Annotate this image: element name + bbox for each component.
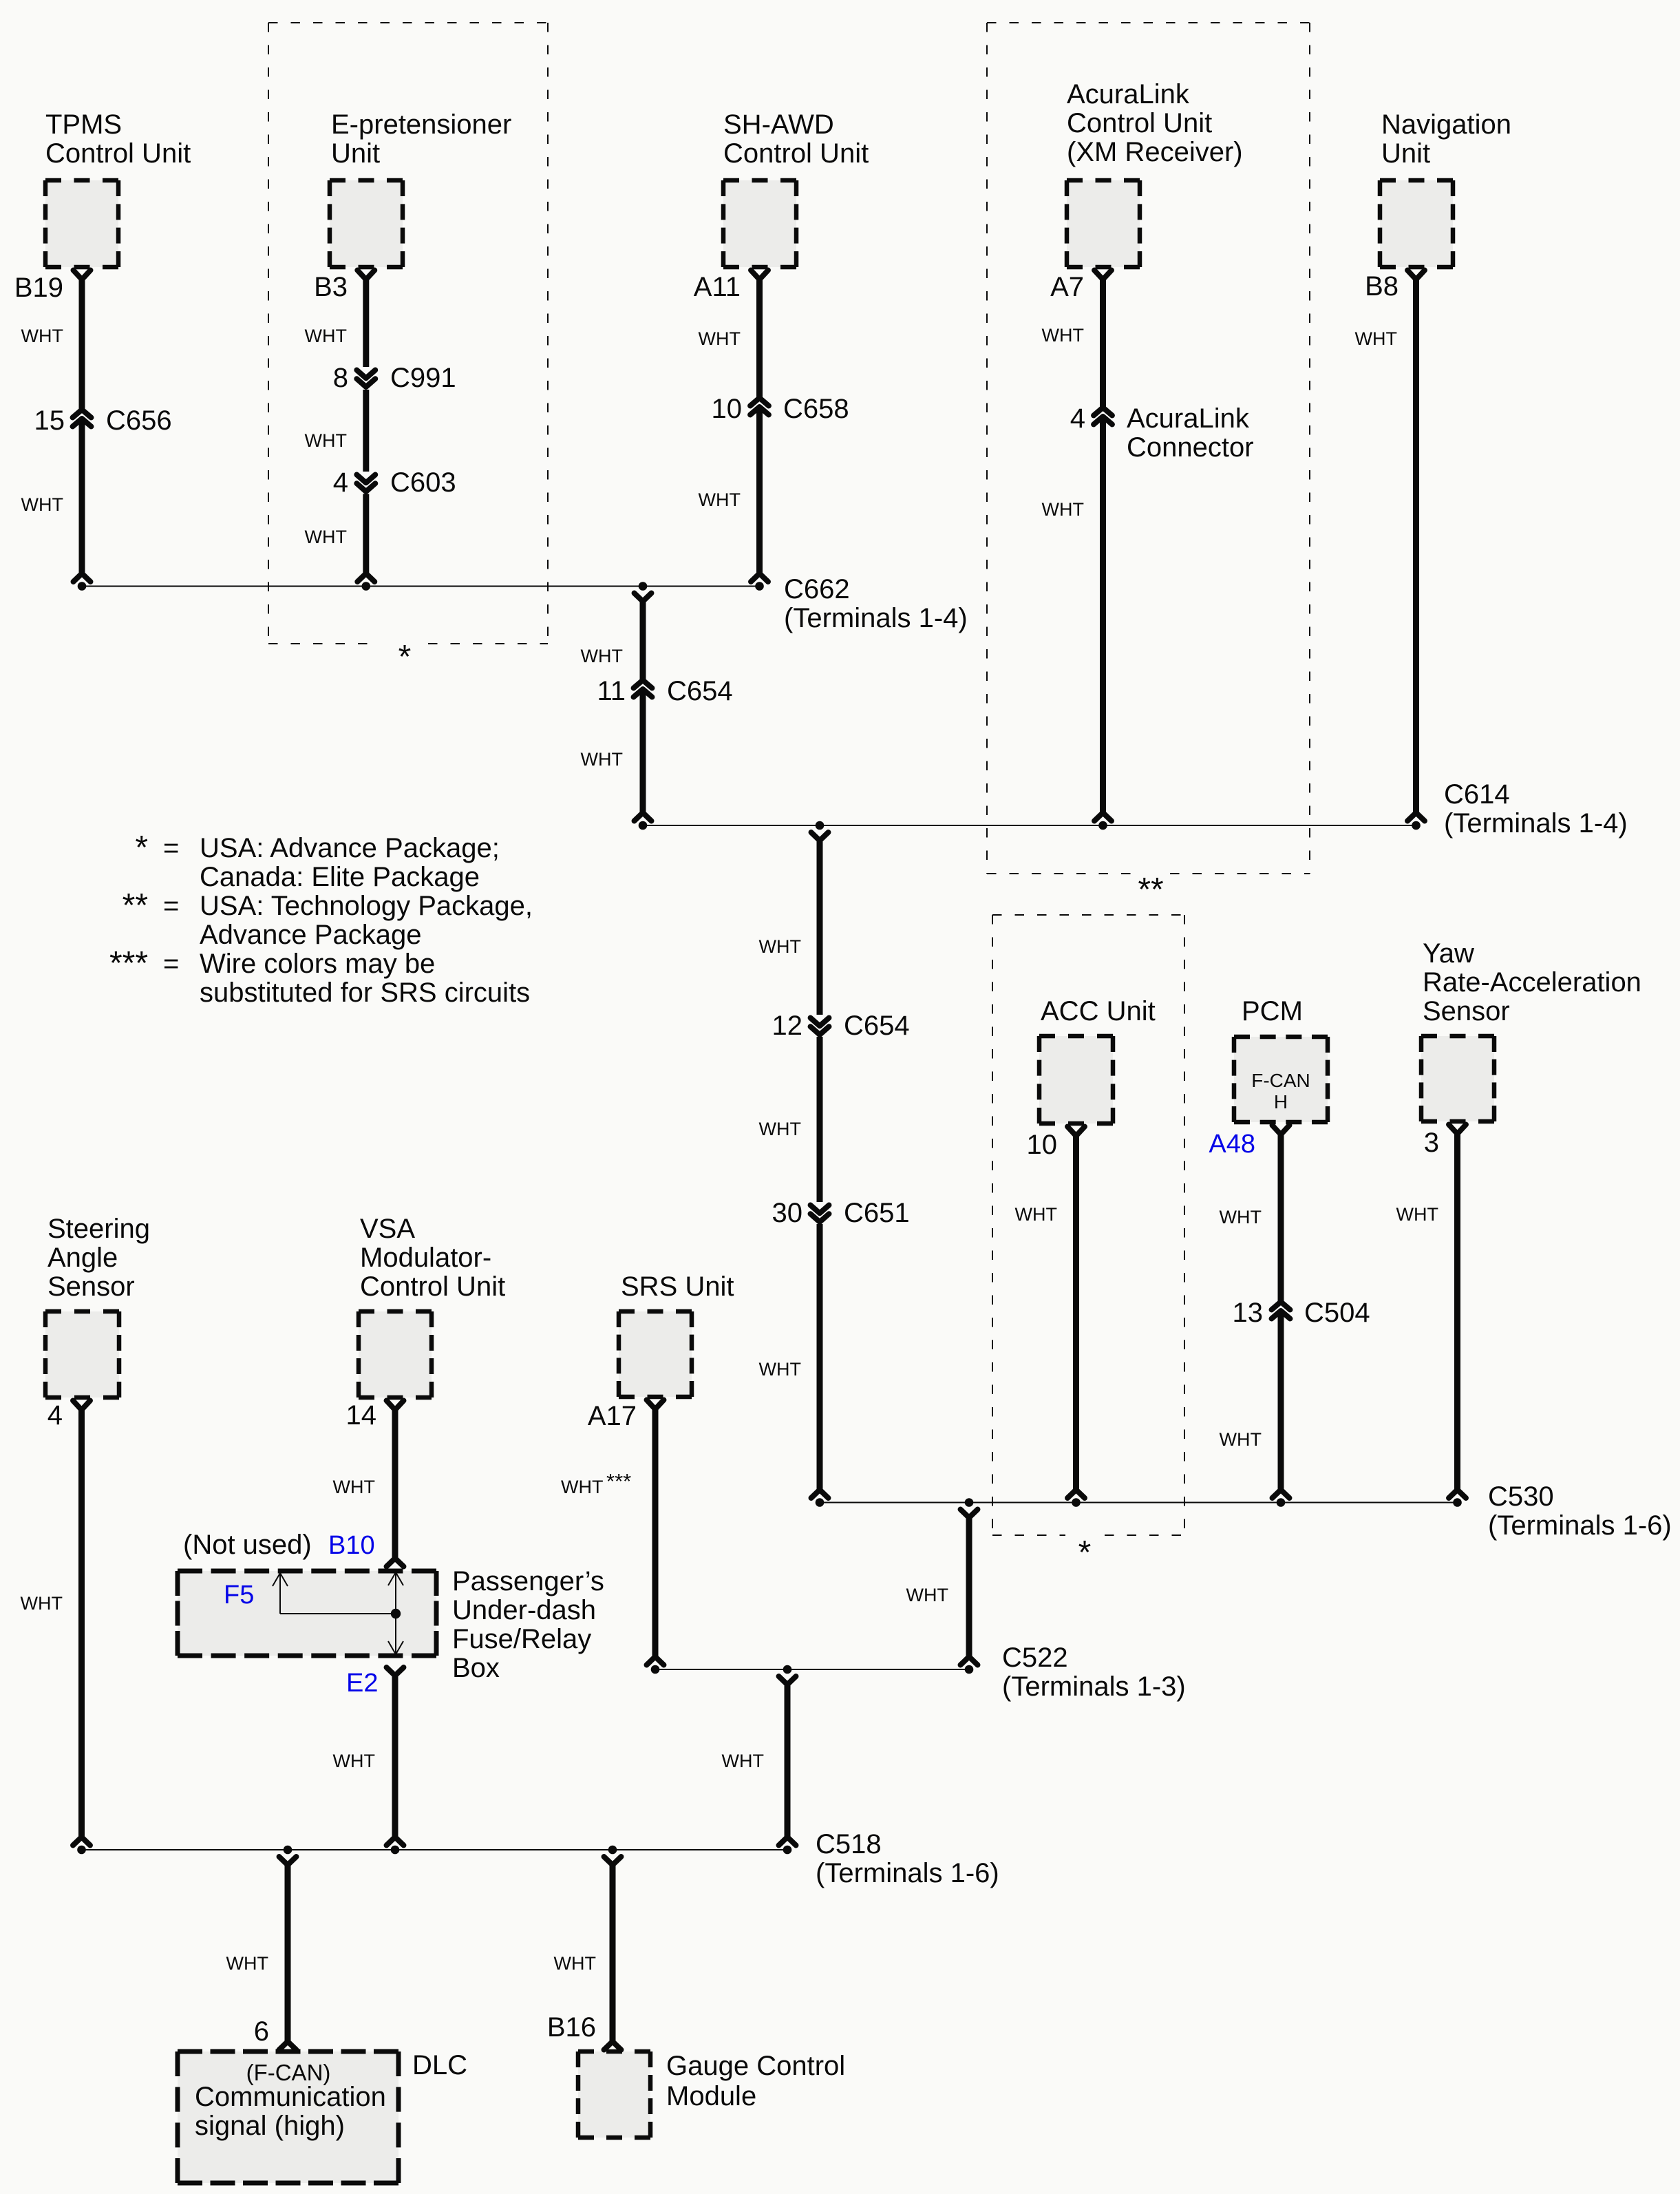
svg-text:USA: Technology Package,: USA: Technology Package, bbox=[200, 891, 533, 921]
svg-text:(F-CAN): (F-CAN) bbox=[246, 2060, 331, 2085]
svg-text:4: 4 bbox=[47, 1400, 63, 1431]
svg-text:Box: Box bbox=[452, 1653, 500, 1683]
svg-text:Control Unit: Control Unit bbox=[723, 138, 869, 169]
svg-text:6: 6 bbox=[254, 2016, 269, 2047]
svg-text:C651: C651 bbox=[844, 1198, 910, 1228]
svg-text:WHT: WHT bbox=[759, 936, 801, 957]
svg-text:Gauge Control: Gauge Control bbox=[666, 2051, 845, 2081]
svg-text:10: 10 bbox=[712, 394, 743, 424]
svg-text:C991: C991 bbox=[390, 363, 456, 393]
svg-text:Steering: Steering bbox=[47, 1214, 150, 1244]
svg-text:(Terminals 1-4): (Terminals 1-4) bbox=[1444, 808, 1628, 838]
svg-text:PCM: PCM bbox=[1242, 996, 1303, 1026]
svg-text:WHT: WHT bbox=[561, 1477, 603, 1497]
svg-text:Under-dash: Under-dash bbox=[452, 1595, 596, 1625]
svg-text:15: 15 bbox=[34, 405, 65, 436]
svg-text:(Terminals 1-3): (Terminals 1-3) bbox=[1002, 1671, 1186, 1702]
svg-text:USA: Advance Package;: USA: Advance Package; bbox=[200, 833, 500, 863]
svg-text:WHT: WHT bbox=[305, 430, 347, 451]
svg-text:C518: C518 bbox=[816, 1829, 882, 1859]
svg-text:WHT: WHT bbox=[759, 1359, 801, 1380]
svg-text:Module: Module bbox=[666, 2081, 756, 2111]
svg-text:WHT: WHT bbox=[1355, 328, 1397, 349]
svg-text:30: 30 bbox=[772, 1198, 803, 1228]
svg-text:(Terminals 1-6): (Terminals 1-6) bbox=[1488, 1510, 1672, 1541]
svg-text:F5: F5 bbox=[224, 1581, 254, 1610]
svg-text:Modulator-: Modulator- bbox=[360, 1243, 491, 1273]
svg-text:Sensor: Sensor bbox=[1423, 996, 1510, 1026]
svg-text:C603: C603 bbox=[390, 467, 456, 498]
svg-text:WHT: WHT bbox=[333, 1477, 375, 1497]
svg-text:signal (high): signal (high) bbox=[195, 2111, 345, 2141]
svg-text:B16: B16 bbox=[547, 2012, 596, 2043]
svg-text:B19: B19 bbox=[14, 273, 63, 303]
svg-text:Angle: Angle bbox=[47, 1243, 118, 1273]
svg-text:WHT: WHT bbox=[722, 1751, 764, 1771]
svg-text:*: * bbox=[135, 830, 148, 866]
svg-text:WHT: WHT bbox=[581, 749, 623, 770]
svg-text:E-pretensioner: E-pretensioner bbox=[331, 109, 511, 140]
svg-text:4: 4 bbox=[1070, 403, 1085, 434]
svg-text:SRS Unit: SRS Unit bbox=[621, 1272, 734, 1302]
svg-text:Communication: Communication bbox=[195, 2082, 386, 2112]
svg-text:C654: C654 bbox=[844, 1011, 910, 1041]
svg-text:11: 11 bbox=[597, 676, 626, 706]
svg-text:WHT: WHT bbox=[1015, 1204, 1057, 1225]
svg-text:4: 4 bbox=[333, 467, 348, 498]
svg-text:WHT: WHT bbox=[699, 489, 741, 510]
svg-text:C656: C656 bbox=[106, 405, 172, 436]
svg-text:**: ** bbox=[123, 887, 148, 924]
svg-text:Connector: Connector bbox=[1127, 432, 1254, 463]
svg-text:C654: C654 bbox=[667, 676, 733, 706]
svg-text:8: 8 bbox=[333, 363, 348, 393]
svg-text:Passenger’s: Passenger’s bbox=[452, 1566, 604, 1596]
svg-text:WHT: WHT bbox=[21, 1593, 63, 1614]
svg-text:C658: C658 bbox=[783, 394, 849, 424]
svg-text:***: *** bbox=[109, 945, 148, 982]
svg-text:E2: E2 bbox=[346, 1669, 378, 1698]
svg-text:Wire colors may be: Wire colors may be bbox=[200, 949, 435, 979]
svg-text:WHT: WHT bbox=[581, 646, 623, 666]
svg-text:WHT: WHT bbox=[1220, 1207, 1262, 1227]
svg-text:*: * bbox=[398, 639, 412, 675]
svg-text:(XM Receiver): (XM Receiver) bbox=[1067, 137, 1243, 167]
svg-text:WHT: WHT bbox=[699, 328, 741, 349]
svg-text:WHT: WHT bbox=[1042, 325, 1084, 346]
svg-text:VSA: VSA bbox=[360, 1214, 415, 1244]
svg-text:A11: A11 bbox=[694, 272, 741, 302]
svg-text:substituted for SRS circuits: substituted for SRS circuits bbox=[200, 978, 530, 1008]
svg-text:SH-AWD: SH-AWD bbox=[723, 109, 834, 140]
svg-text:WHT: WHT bbox=[21, 326, 63, 346]
svg-text:Control Unit: Control Unit bbox=[1067, 108, 1212, 138]
svg-text:(Terminals 1-4): (Terminals 1-4) bbox=[784, 603, 968, 633]
svg-text:=: = bbox=[163, 833, 179, 863]
svg-text:WHT: WHT bbox=[906, 1585, 948, 1605]
svg-text:WHT: WHT bbox=[226, 1953, 268, 1974]
svg-text:Sensor: Sensor bbox=[47, 1272, 135, 1302]
svg-text:10: 10 bbox=[1027, 1130, 1058, 1160]
svg-text:3: 3 bbox=[1424, 1128, 1439, 1158]
svg-text:AcuraLink: AcuraLink bbox=[1127, 403, 1250, 434]
svg-text:C662: C662 bbox=[784, 574, 850, 604]
svg-text:12: 12 bbox=[772, 1011, 803, 1041]
svg-text:B10: B10 bbox=[328, 1531, 375, 1560]
svg-text:Unit: Unit bbox=[1381, 138, 1430, 169]
svg-text:C504: C504 bbox=[1304, 1298, 1370, 1328]
svg-text:WHT: WHT bbox=[333, 1751, 375, 1771]
svg-text:A48: A48 bbox=[1209, 1130, 1255, 1159]
svg-text:F-CAN: F-CAN bbox=[1251, 1070, 1310, 1091]
svg-text:Navigation: Navigation bbox=[1381, 109, 1511, 140]
svg-text:TPMS: TPMS bbox=[45, 109, 122, 140]
svg-text:WHT: WHT bbox=[759, 1119, 801, 1139]
svg-text:A17: A17 bbox=[588, 1401, 637, 1431]
svg-text:**: ** bbox=[1138, 872, 1163, 908]
svg-text:C530: C530 bbox=[1488, 1481, 1554, 1512]
svg-text:Advance Package: Advance Package bbox=[200, 920, 421, 950]
svg-text:=: = bbox=[163, 949, 179, 979]
svg-text:WHT: WHT bbox=[1220, 1429, 1262, 1450]
svg-text:Unit: Unit bbox=[331, 138, 380, 169]
svg-text:B3: B3 bbox=[314, 272, 348, 302]
svg-text:ACC Unit: ACC Unit bbox=[1041, 996, 1156, 1026]
svg-text:B8: B8 bbox=[1365, 271, 1399, 302]
svg-text:WHT: WHT bbox=[21, 494, 63, 515]
svg-text:Fuse/Relay: Fuse/Relay bbox=[452, 1624, 591, 1654]
svg-text:(Terminals 1-6): (Terminals 1-6) bbox=[816, 1858, 999, 1888]
svg-text:13: 13 bbox=[1233, 1298, 1264, 1328]
svg-text:AcuraLink: AcuraLink bbox=[1067, 79, 1190, 109]
svg-text:WHT: WHT bbox=[305, 326, 347, 346]
svg-text:Canada: Elite Package: Canada: Elite Package bbox=[200, 862, 480, 892]
svg-text:Yaw: Yaw bbox=[1423, 938, 1474, 969]
svg-text:WHT: WHT bbox=[305, 527, 347, 547]
svg-text:C614: C614 bbox=[1444, 779, 1510, 810]
svg-text:*: * bbox=[1078, 1534, 1092, 1571]
svg-text:A7: A7 bbox=[1050, 272, 1084, 302]
svg-text:H: H bbox=[1274, 1091, 1288, 1112]
svg-text:***: *** bbox=[606, 1469, 631, 1493]
svg-text:Rate-Acceleration: Rate-Acceleration bbox=[1423, 967, 1641, 998]
svg-text:WHT: WHT bbox=[1042, 499, 1084, 520]
svg-text:C522: C522 bbox=[1002, 1643, 1068, 1673]
svg-text:Control Unit: Control Unit bbox=[360, 1272, 505, 1302]
svg-text:=: = bbox=[163, 891, 179, 921]
svg-text:Control Unit: Control Unit bbox=[45, 138, 191, 169]
svg-text:DLC: DLC bbox=[412, 2050, 467, 2080]
svg-text:WHT: WHT bbox=[1396, 1204, 1438, 1225]
svg-text:WHT: WHT bbox=[554, 1953, 596, 1974]
svg-text:(Not used): (Not used) bbox=[183, 1530, 312, 1560]
svg-text:14: 14 bbox=[346, 1400, 377, 1431]
